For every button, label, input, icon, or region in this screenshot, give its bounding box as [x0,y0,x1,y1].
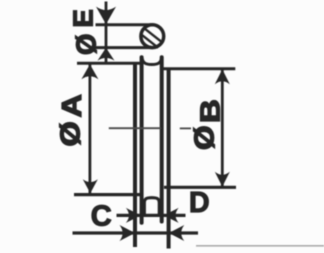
rope hatch line 1 [143,27,161,41]
dimension B line [221,70,224,187]
svg-text:Ø: Ø [71,34,102,55]
arrow E bottom (up) [98,48,115,61]
axis center line left segment [109,127,161,129]
B bottom extension line [164,186,236,189]
svg-text:C: C [91,200,112,232]
dimension D line [73,231,199,234]
rope hatch line 2 [142,35,159,48]
A bottom extension line [74,193,144,196]
arrow A top (up) [81,64,98,79]
axis center line right dash [180,127,191,129]
rope tangent bottom line [96,46,154,49]
dimension A line [89,64,92,194]
arrow C right (points left) [164,208,179,223]
sheave left inner flange line [140,57,144,223]
svg-text:B: B [196,99,226,123]
dimension E vertical line [105,2,108,63]
sheave right outer face line [167,69,171,249]
arrow A bottom (down) [83,179,98,193]
rope tangent top line [96,23,154,26]
svg-text:E: E [68,9,99,27]
arrow D left (points right) [120,225,136,241]
groove bottom arch [144,198,159,215]
arrow B bottom (down) [215,172,230,187]
B top extension line [162,67,236,70]
arrow B top (up) [215,69,230,84]
rope cross-section circle [141,25,164,48]
arrow E top (down) [96,7,116,25]
svg-text:Ø: Ø [56,121,86,146]
arrow C left (points right) [126,208,141,223]
scan artifact line bottom right [196,245,324,247]
svg-text:D: D [189,187,210,219]
sheave left outer face line [133,63,137,247]
dimension C line [117,214,186,217]
arrow D right (points left) [169,225,185,241]
sheave right inner flange line [160,57,164,221]
groove saddle top curve [142,57,162,65]
svg-text:Ø: Ø [189,125,220,150]
A top extension line [77,62,141,65]
svg-text:A: A [57,94,87,117]
